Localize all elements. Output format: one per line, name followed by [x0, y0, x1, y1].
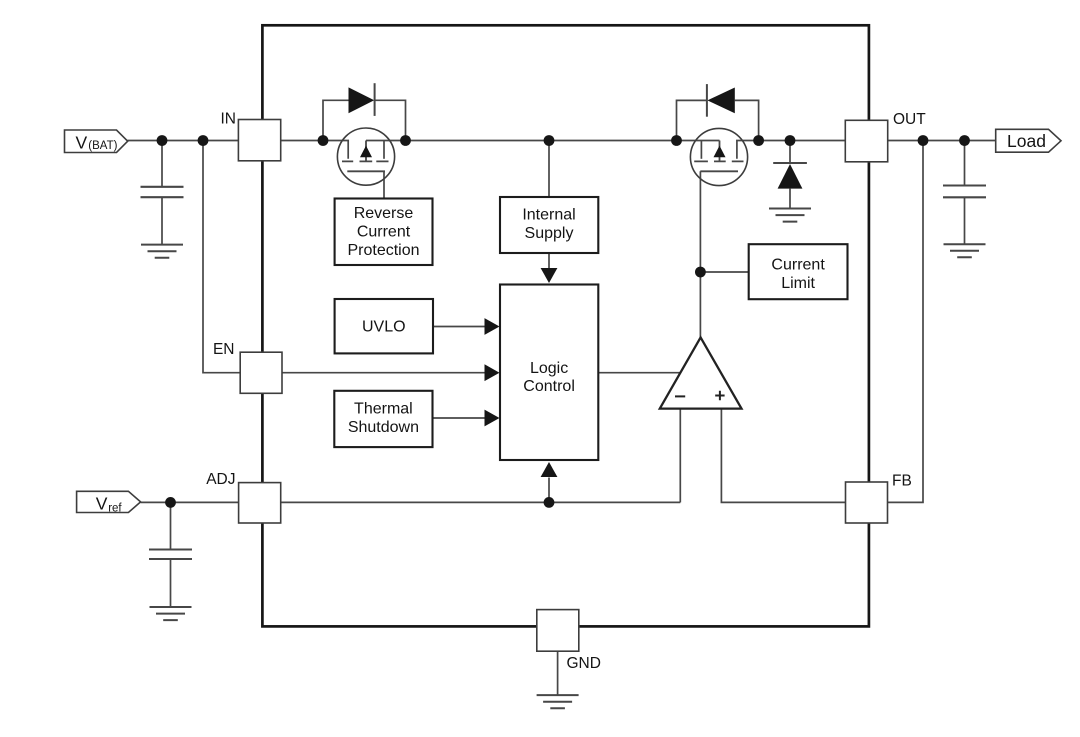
wire comparator non-inverting input to FB — [721, 409, 845, 503]
block UVLO — [335, 299, 433, 353]
IC boundary — [262, 25, 869, 626]
net flag Vref — [77, 491, 141, 512]
svg-text:EN: EN — [213, 341, 235, 358]
svg-text:IN: IN — [221, 111, 237, 128]
wire Internal Supply to Logic Control — [548, 253, 550, 269]
net flag Load — [996, 129, 1061, 152]
node EN branch junction — [198, 135, 209, 146]
pin FB — [846, 482, 888, 523]
svg-text:OUT: OUT — [893, 111, 926, 128]
pin OUT — [845, 120, 887, 162]
svg-text:V: V — [96, 493, 108, 513]
block Internal Supply — [500, 197, 598, 253]
wire Vref capacitor leads — [170, 502, 172, 607]
net flag V(BAT) — [65, 130, 128, 153]
arrowhead UVLO into Logic Control — [485, 318, 500, 335]
svg-text:Internal: Internal — [522, 206, 575, 223]
wire right FET drain stub — [700, 141, 702, 159]
transistor Q1 (reverse blocking FET) — [337, 128, 394, 185]
ground (Vref cap) — [150, 607, 192, 620]
wire ADJ node up to Logic Control — [548, 478, 550, 503]
wire output capacitor leads — [964, 141, 966, 245]
wire left body diode loop cathode side — [375, 100, 406, 140]
ground (clamp diode) — [769, 209, 811, 222]
body diode of Q1 — [349, 83, 375, 116]
wire rail to Internal Supply — [548, 141, 550, 198]
wire left body diode loop anode side — [323, 100, 349, 140]
pin ADJ — [239, 483, 281, 523]
wire gate node to Current Limit — [700, 271, 748, 273]
svg-text:Reverse: Reverse — [354, 205, 414, 222]
svg-text:Supply: Supply — [525, 225, 574, 242]
svg-text:(BAT): (BAT) — [88, 140, 117, 152]
pin EN — [240, 352, 282, 393]
block Reverse Current Protection — [335, 199, 433, 266]
node right diode cathode junction — [671, 135, 682, 146]
wire V(BAT) branch down to EN — [203, 141, 241, 373]
svg-text:V: V — [76, 132, 88, 152]
wire Logic Control to comparator — [598, 372, 680, 374]
wire right FET gate down to comparator output — [699, 171, 701, 338]
wire GND pin to ground — [557, 651, 559, 695]
svg-text:ref: ref — [108, 503, 122, 515]
wire left FET drain stub — [383, 141, 385, 159]
svg-text:Protection: Protection — [347, 242, 419, 259]
node gate-Current Limit junction — [695, 267, 706, 278]
svg-text:Limit: Limit — [781, 275, 815, 292]
block Thermal Shutdown — [334, 391, 432, 447]
wire UVLO to Logic Control — [433, 326, 487, 328]
wire ADJ to inverting input — [281, 501, 680, 503]
ground (output cap) — [944, 244, 986, 257]
wire clamp diode drop — [789, 141, 791, 209]
wire V(BAT) to IN and left FET source stub — [128, 141, 349, 159]
block Logic Control — [500, 285, 598, 461]
wire left FET gate to Reverse Current Protection — [383, 171, 385, 198]
wire OUT node down to FB pin — [888, 141, 924, 503]
block Current Limit — [749, 244, 848, 299]
node right diode anode junction — [753, 135, 764, 146]
wire right body diode loop cathode side — [677, 100, 707, 140]
node FB sense junction — [918, 135, 929, 146]
svg-text:Current: Current — [357, 224, 411, 241]
node Vref cap junction — [165, 497, 176, 508]
node clamp diode junction — [785, 135, 796, 146]
wire EN to Logic Control — [282, 372, 487, 374]
svg-text:ADJ: ADJ — [206, 471, 235, 488]
ground (input cap) — [141, 245, 183, 258]
pin IN — [238, 120, 280, 161]
capacitor Vref bypass — [149, 550, 192, 560]
node left diode anode junction — [318, 135, 329, 146]
ground (GND pin) — [537, 695, 579, 708]
node output cap junction — [959, 135, 970, 146]
wire right FET source stub to OUT — [737, 141, 846, 159]
plus sign — [715, 391, 724, 400]
svg-text:Shutdown: Shutdown — [348, 419, 419, 436]
node input cap junction — [157, 135, 168, 146]
svg-text:Thermal: Thermal — [354, 401, 413, 418]
pin GND — [537, 610, 579, 652]
svg-text:GND: GND — [567, 655, 601, 672]
svg-text:Logic: Logic — [530, 360, 568, 377]
svg-text:Load: Load — [1007, 131, 1046, 151]
clamp diode at OUT node — [773, 163, 807, 189]
wire right body diode loop anode side — [735, 100, 759, 140]
wire Vref to ADJ — [141, 501, 239, 503]
node ADJ-Logic junction — [544, 497, 555, 508]
arrowhead Internal Supply into Logic Control — [541, 268, 558, 283]
capacitor output (COUT) — [943, 186, 986, 198]
wire input capacitor leads — [161, 141, 163, 245]
capacitor input (CIN) — [141, 187, 184, 197]
node left diode cathode junction — [400, 135, 411, 146]
wire Thermal Shutdown to Logic Control — [433, 417, 488, 419]
wire OUT to Load — [888, 140, 996, 142]
node internal supply junction — [544, 135, 555, 146]
svg-text:UVLO: UVLO — [362, 319, 406, 336]
svg-text:Current: Current — [771, 256, 825, 273]
svg-text:FB: FB — [892, 473, 912, 490]
arrowhead EN into Logic Control — [485, 364, 500, 381]
arrowhead ADJ into Logic Control bottom — [541, 462, 558, 477]
arrowhead Thermal Shutdown into Logic Control — [485, 410, 500, 427]
wire main rail between FET body taps — [366, 140, 720, 142]
transistor Q2 (pass FET) — [690, 128, 747, 185]
body diode of Q2 — [707, 84, 735, 117]
minus sign — [675, 395, 685, 397]
op-amp U1 (error comparator) — [660, 337, 742, 408]
wire comparator inverting input — [679, 409, 681, 503]
svg-text:Control: Control — [523, 378, 575, 395]
